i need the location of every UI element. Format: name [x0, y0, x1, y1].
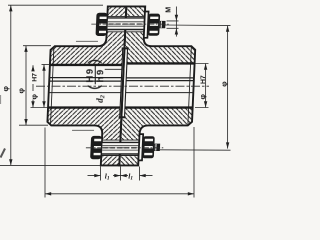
dim line keyway: [43, 65, 45, 108]
svg-text:H7: H7: [200, 75, 207, 84]
l1 dim line: [88, 175, 153, 177]
right bore key line a: [126, 77, 194, 79]
right bore dim ext lines: [195, 64, 209, 108]
fillet shoulder line left top: [76, 40, 98, 42]
svg-text:φ: φ: [30, 94, 39, 100]
svg-text:φ: φ: [1, 86, 10, 92]
ext line flange bottom: [0, 164, 101, 166]
bolt circle arrows: [226, 26, 229, 32]
bolt head: [95, 13, 107, 36]
bore fit label d2(H9/h9): [85, 59, 106, 103]
ext line keyway top: [42, 64, 51, 66]
spigot left line: [120, 48, 123, 117]
right bore dim arrows: [204, 64, 207, 70]
ext line hub bottom: [19, 124, 48, 126]
bore dim arrows: [31, 65, 34, 71]
bottom ext line hub right: [193, 127, 195, 198]
svg-text:): ): [86, 59, 103, 64]
joint line between flanges: [119, 6, 126, 165]
svg-text:φ: φ: [198, 94, 207, 100]
bolt circle ext bottom: [160, 149, 231, 151]
bottom bolt (mirrored): [85, 134, 164, 160]
bolt hole lines: [107, 16, 145, 31]
left half coupling hatched body: [46, 6, 127, 165]
right hub chamfer edge line: [188, 46, 191, 125]
washer: [144, 12, 149, 38]
thread lines: [108, 22, 144, 26]
ext line flange top: [8, 4, 103, 6]
main centerline: [36, 85, 209, 87]
spigot gap strip (white): [120, 48, 128, 117]
dim line hub OD: [25, 46, 27, 126]
svg-text:φ: φ: [16, 88, 25, 94]
fillet shoulder line left bottom: [72, 129, 94, 131]
bottom ext flange right face: [139, 167, 141, 181]
left hub chamfer edge line: [50, 46, 53, 125]
ext line hub top: [23, 45, 51, 47]
l1 arrows: [94, 174, 100, 177]
top bolt: [91, 12, 170, 38]
bottom ext joint: [120, 167, 122, 181]
svg-text:l1: l1: [128, 171, 133, 181]
dimension texts: [1, 7, 228, 182]
keyway dim arrows: [42, 65, 45, 71]
hub OD arrows: [24, 46, 27, 52]
nut: [148, 14, 161, 36]
M thread ext lines: [167, 21, 179, 28]
left bore bottom line: [48, 106, 121, 108]
dim line flange OD: [10, 5, 12, 165]
M dim line: [175, 7, 177, 37]
L arrows: [45, 192, 51, 195]
flange coupling sectional drawing: [0, 0, 233, 200]
flange OD arrows: [9, 5, 12, 11]
left bore key line b: [49, 80, 122, 82]
left bore key line a: [49, 77, 122, 79]
bolt shank: [107, 18, 145, 30]
left bore (white): [48, 65, 122, 108]
spigot top cap: [122, 47, 129, 49]
right bore keyway top line: [127, 62, 195, 64]
right bore (white): [125, 63, 195, 107]
right half coupling outline: [119, 6, 197, 165]
bottom ext flange left face: [100, 167, 102, 181]
right bore bottom line: [125, 106, 193, 108]
ext line bore bottom: [31, 107, 48, 109]
bottom ext line hub left: [44, 128, 46, 198]
svg-text:φ: φ: [219, 81, 228, 87]
svg-text:h9: h9: [95, 68, 106, 82]
right half coupling hatched body: [119, 6, 197, 165]
left bore lower line: [48, 92, 121, 94]
left bore keyway top line: [50, 64, 123, 66]
svg-text:M: M: [166, 7, 173, 13]
bolt circle ext top: [165, 24, 231, 27]
svg-text:H7: H7: [31, 73, 38, 82]
left bore inner step line: [105, 68, 122, 70]
svg-text:l1: l1: [105, 171, 110, 181]
arrows: [9, 5, 229, 195]
bolt hole top (white): [106, 16, 145, 31]
right bore dim line: [205, 64, 207, 108]
svg-text:(: (: [86, 85, 103, 90]
spigot bottom cap: [119, 116, 126, 118]
bolt centerline: [91, 23, 168, 25]
bolt circle dim line: [227, 26, 229, 149]
spigot right line: [125, 48, 128, 117]
right bore key line b: [126, 80, 194, 82]
right bore lower line: [126, 92, 194, 94]
dim line bore: [32, 65, 34, 107]
bolt tip: [160, 21, 166, 28]
bolt hole bottom (white): [101, 140, 140, 155]
scan artifact left margin: [1, 149, 6, 158]
left half coupling outline: [46, 6, 127, 165]
M arrows (outside): [175, 15, 178, 21]
L dim line: [45, 193, 194, 195]
